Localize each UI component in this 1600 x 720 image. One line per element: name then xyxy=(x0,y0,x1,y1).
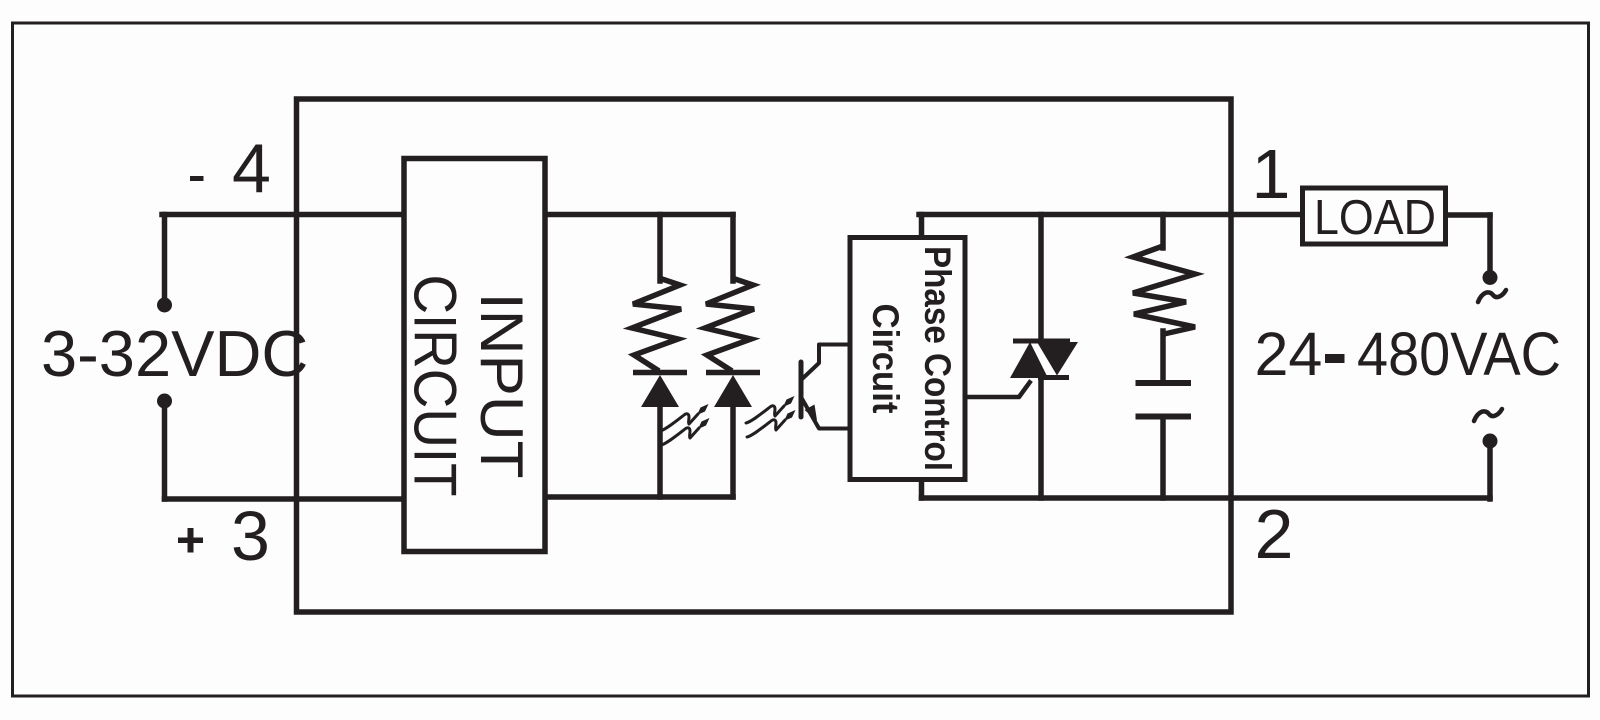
svg-text:24: 24 xyxy=(1255,320,1323,388)
svg-text:LOAD: LOAD xyxy=(1314,191,1436,245)
svg-text:3: 3 xyxy=(231,497,270,575)
svg-text:Phase Control: Phase Control xyxy=(917,246,958,471)
svg-text:Circuit: Circuit xyxy=(865,304,906,414)
svg-text:2: 2 xyxy=(1255,495,1294,573)
svg-text:480VAC: 480VAC xyxy=(1357,320,1561,388)
svg-text:INPUT: INPUT xyxy=(468,293,535,479)
svg-text:1: 1 xyxy=(1252,135,1291,213)
svg-text:3-32VDC: 3-32VDC xyxy=(41,317,308,390)
svg-text:CIRCUIT: CIRCUIT xyxy=(402,275,469,497)
svg-text:4: 4 xyxy=(232,130,271,208)
